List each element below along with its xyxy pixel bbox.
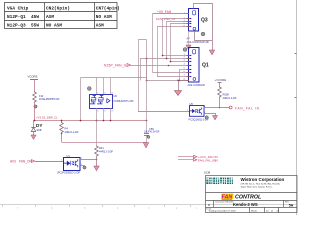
svg-text:AV3: AV3 bbox=[10, 160, 16, 164]
wire opto U5 pin1 input bbox=[138, 111, 189, 113]
wire Q3 bottom to ground bbox=[195, 31, 213, 50]
svg-text:FAN: FAN bbox=[222, 194, 233, 200]
ground arrow right of U5 bbox=[212, 116, 217, 121]
logo text bbox=[206, 178, 233, 184]
svg-text:7: 7 bbox=[184, 75, 185, 77]
ground arrow below Q3 bbox=[188, 31, 190, 45]
title block bbox=[206, 176, 298, 213]
svg-text:+V3.3S_DBP_CL: +V3.3S_DBP_CL bbox=[36, 116, 58, 120]
U6 bottom pins bbox=[97, 108, 111, 146]
svg-text:45W: 45W bbox=[31, 14, 39, 20]
wire A top rail bbox=[81, 77, 147, 79]
svg-text:F10: F10 bbox=[39, 95, 44, 98]
wire A left drop bbox=[80, 78, 82, 121]
gray marker near C bbox=[147, 136, 150, 139]
svg-text:2: 2 bbox=[105, 93, 106, 95]
wire bundle verticals bbox=[141, 14, 180, 81]
svg-text:NO ASM: NO ASM bbox=[96, 14, 112, 20]
svg-text:FAN_FAL_IN: FAN_FAL_IN bbox=[198, 158, 216, 162]
big ground arrow below Q1 bbox=[174, 91, 181, 96]
off-page net +VCC_FAN bbox=[178, 156, 193, 158]
svg-text:+VCORE: +VCORE bbox=[215, 78, 227, 82]
U6 top pins bbox=[97, 78, 111, 95]
gray circle marker near U1 bbox=[83, 166, 86, 169]
wire VCORE down bbox=[34, 79, 36, 91]
wire +V5_FAN to Q3 pin1 bbox=[153, 13, 189, 15]
svg-text:(PC)PS2561D-1-DF: (PC)PS2561D-1-DF bbox=[57, 171, 80, 175]
ground arrow below DY bbox=[31, 135, 36, 140]
svg-text:Wistron Corporation: Wistron Corporation bbox=[241, 177, 285, 182]
optocoupler U5 bbox=[189, 102, 209, 121]
pink rail at y142 bbox=[62, 142, 147, 144]
junction dots rail B bbox=[34, 120, 148, 122]
net bubble FAN_FAIL bbox=[229, 106, 232, 109]
svg-text:55W: 55W bbox=[31, 23, 39, 29]
svg-text:FAN_ON: FAN_ON bbox=[19, 160, 32, 164]
svg-text:U6: U6 bbox=[114, 94, 118, 98]
opto U1 pin numbers bbox=[61, 158, 81, 166]
svg-text:5V: 5V bbox=[215, 158, 219, 162]
wire R61 down to pink rail bbox=[61, 134, 63, 143]
svg-text:44R2J-1-DF: 44R2J-1-DF bbox=[99, 149, 114, 153]
svg-text:CONTROL: CONTROL bbox=[235, 194, 261, 200]
border frame right line bbox=[295, 0, 297, 215]
wire Q1 ground bbox=[179, 81, 189, 91]
svg-text:2: 2 bbox=[184, 57, 185, 59]
gray circle marker near Q3 bbox=[201, 32, 205, 36]
wire R508 to node bbox=[219, 98, 221, 108]
gray circle marker near U6 bbox=[87, 87, 91, 91]
wire N15P_FAN_G to Q1 bbox=[131, 65, 189, 67]
mosfet pair U6 bbox=[90, 94, 135, 109]
opto U5 pin numbers bbox=[187, 106, 206, 114]
svg-text:A02-CON8-DF: A02-CON8-DF bbox=[188, 83, 206, 87]
VGA chip option table bbox=[5, 3, 118, 29]
svg-text:SDB: SDB bbox=[37, 129, 42, 132]
gray circle marker near Q1 bbox=[183, 48, 187, 52]
border frame bottom line bbox=[0, 205, 297, 211]
svg-text:Q1: Q1 bbox=[202, 63, 209, 69]
gray circle marker under F10 bbox=[34, 105, 37, 108]
svg-text:Kendo-3 WS: Kendo-3 WS bbox=[233, 202, 258, 207]
svg-text:SCM: SCM bbox=[204, 171, 211, 175]
wire A right drop x146 bbox=[146, 78, 148, 134]
U6 pin numbers bbox=[98, 93, 113, 113]
svg-text:ASM: ASM bbox=[46, 14, 54, 20]
optocoupler U1 bbox=[57, 154, 80, 175]
svg-text:44R2J-1-DF: 44R2J-1-DF bbox=[65, 130, 80, 134]
wire rail B horizontal bbox=[35, 120, 147, 122]
svg-text:COMUNIDTU-DF: COMUNIDTU-DF bbox=[114, 99, 135, 103]
svg-text:CN7(4pin): CN7(4pin) bbox=[96, 6, 120, 12]
svg-text:FAN_FN1_IN: FAN_FN1_IN bbox=[156, 17, 175, 21]
svg-text:6: 6 bbox=[98, 111, 99, 113]
svg-text:5: 5 bbox=[105, 111, 106, 113]
wire vertical x146 upper bbox=[146, 40, 148, 81]
wire fuse to rail B bbox=[34, 103, 36, 120]
svg-text:4: 4 bbox=[112, 111, 113, 113]
node under R bbox=[96, 159, 98, 161]
svg-text:VCORE: VCORE bbox=[28, 75, 38, 79]
svg-text:6: 6 bbox=[184, 26, 185, 28]
resistor R at x95.5 bbox=[95, 146, 99, 157]
svg-text:10UF/6.3V-DF: 10UF/6.3V-DF bbox=[144, 131, 160, 134]
svg-text:FAN_FAL IN: FAN_FAL IN bbox=[235, 106, 260, 110]
wire opto1 feed vertical x138 bbox=[139, 40, 147, 112]
wire Q1 pin rows bbox=[140, 56, 189, 81]
svg-text:N12P-Q1: N12P-Q1 bbox=[7, 14, 26, 20]
svg-text:B: B bbox=[208, 203, 210, 207]
ground arrow under R41 bbox=[94, 166, 100, 171]
svg-text:4: 4 bbox=[184, 64, 185, 66]
wire opto U5 pin4 to node and label bbox=[204, 107, 230, 109]
resistor R4 at x61 bbox=[60, 121, 64, 134]
svg-text:ASM: ASM bbox=[96, 23, 104, 29]
svg-text:1: 1 bbox=[61, 160, 62, 162]
resistor R508 bbox=[218, 86, 222, 98]
svg-text:DY: DY bbox=[36, 123, 42, 128]
wire Q3 top to right drop bbox=[194, 4, 213, 41]
svg-text:Tuesday, December 07, 2010: Tuesday, December 07, 2010 bbox=[209, 209, 237, 212]
table text bbox=[7, 6, 120, 29]
svg-text:5: 5 bbox=[184, 68, 185, 70]
connector Q3 bbox=[184, 9, 210, 45]
svg-text:Q3: Q3 bbox=[201, 18, 208, 24]
svg-text:N12P-Q3: N12P-Q3 bbox=[7, 23, 26, 29]
svg-text:Sheet: Sheet bbox=[251, 209, 257, 212]
svg-text:3: 3 bbox=[112, 93, 113, 95]
junction dots bundle bbox=[146, 55, 181, 82]
svg-text:Taipei Hsien 221, Taiwan, R.O.: Taipei Hsien 221, Taiwan, R.O.C. bbox=[241, 186, 273, 188]
svg-text:NO ASM: NO ASM bbox=[46, 23, 62, 29]
svg-text:CN2(6pin): CN2(6pin) bbox=[46, 6, 70, 12]
svg-text:1: 1 bbox=[184, 12, 185, 14]
svg-text:VGA Chip: VGA Chip bbox=[7, 6, 29, 12]
svg-text:1: 1 bbox=[98, 93, 99, 95]
svg-text:FUSE-0805HHF-DF: FUSE-0805HHF-DF bbox=[39, 99, 60, 101]
wire opto U5 pin3 to ground bbox=[204, 114, 216, 116]
svg-text:5A: 5A bbox=[289, 203, 294, 207]
off-page net FAN_FAL_IN bbox=[178, 159, 193, 161]
svg-text:21F, 88, Sec.1, Hsin Tai Wu Rd: 21F, 88, Sec.1, Hsin Tai Wu Rd., Hsichih… bbox=[241, 184, 281, 186]
wire Q3 pin rows bbox=[157, 19, 189, 27]
node dot bbox=[219, 107, 221, 109]
wire U1 pin4 to R node bbox=[80, 159, 97, 161]
ground arrow below C bbox=[143, 143, 149, 149]
sheet title FAN CONTROL bbox=[221, 194, 233, 199]
fuse F10 bbox=[33, 91, 37, 103]
wire U1 pin3 stub bbox=[80, 165, 85, 167]
wire FAN_ON to opto U1 bbox=[35, 161, 64, 163]
svg-text:6: 6 bbox=[184, 71, 185, 73]
svg-text:44R2J-1-DF: 44R2J-1-DF bbox=[223, 96, 238, 100]
gray circle marker near U5 bbox=[205, 116, 208, 119]
connector Q1 bbox=[184, 48, 209, 88]
svg-text:3: 3 bbox=[184, 60, 185, 62]
svg-text:Document Number: Document Number bbox=[216, 201, 235, 204]
ground arrow right of Q3 bbox=[209, 50, 215, 55]
svg-text:N15P_FAN_G: N15P_FAN_G bbox=[104, 64, 127, 68]
